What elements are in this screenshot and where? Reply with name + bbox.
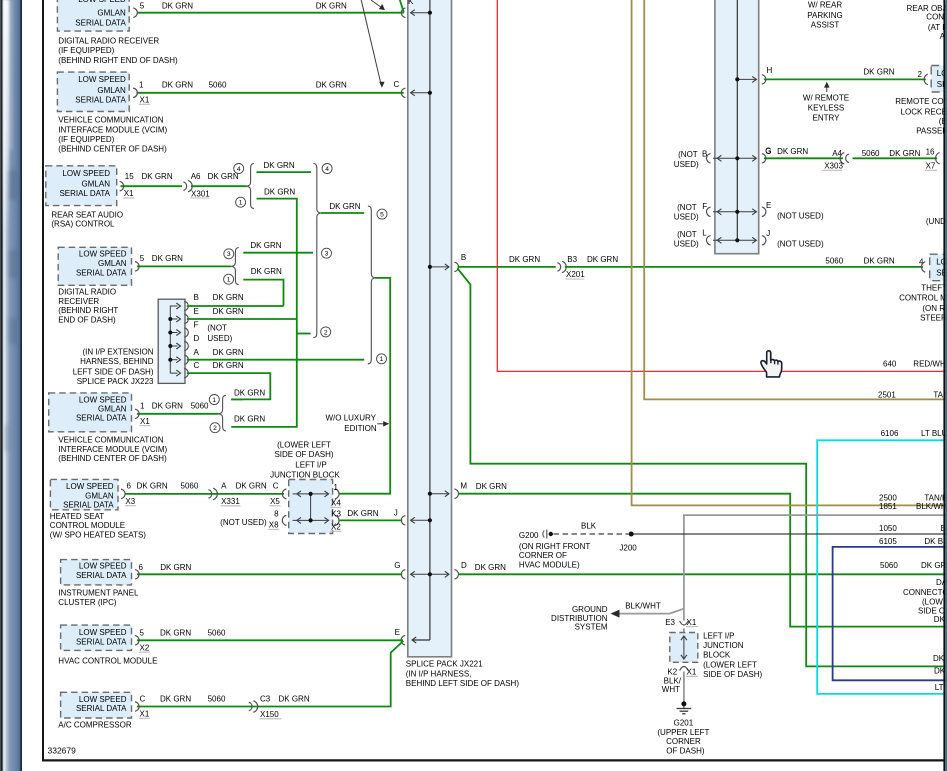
wire 1050 BLK with G200 and J200 [554,533,629,535]
svg-text:4: 4 [325,166,329,173]
svg-text:(LOWER LEFT: (LOWER LEFT [703,661,757,670]
svg-text:2: 2 [324,329,328,336]
splice pack JX221 bus bar [408,0,452,657]
svg-text:(NOT USED): (NOT USED) [777,212,824,221]
svg-text:DK GRN: DK GRN [208,172,239,181]
svg-text:X8: X8 [269,521,279,530]
page frame border [42,0,44,761]
connector arc B1 [133,8,137,18]
svg-text:M: M [460,481,467,490]
svg-text:(NOT: (NOT [677,203,697,212]
wire 2501 TAN [644,0,947,399]
svg-text:LOW SPEED: LOW SPEED [79,695,127,704]
svg-text:BLK/WHT: BLK/WHT [916,502,947,511]
svg-text:(ON RIGHT FRONT: (ON RIGHT FRONT [519,542,591,551]
circled 2 at brace1 [321,327,331,337]
svg-text:SYSTEM: SYSTEM [575,622,608,631]
svg-text:16: 16 [926,147,935,156]
svg-text:G200: G200 [519,531,539,540]
svg-text:(IN I/P HARNESS,: (IN I/P HARNESS, [406,669,472,678]
svg-text:(LOWER LEFT: (LOWER LEFT [277,441,331,450]
connector box B7 LOW SPEED SERIAL DATA (instrument panel cluster) [61,560,132,585]
svg-text:X5: X5 [270,497,280,506]
svg-text:DK GRN: DK GRN [921,561,947,570]
svg-text:DK GRN: DK GRN [279,695,310,704]
circled 1 at brace2 [377,354,387,364]
svg-text:X331: X331 [221,497,240,506]
svg-text:DK GRN: DK GRN [213,361,244,370]
svg-text:DK GRN: DK GRN [863,68,894,77]
svg-text:A4: A4 [832,149,842,158]
wire RSA branch 4 DK GRN [257,171,312,173]
svg-text:(BEHIND RIGHT END OF DASH): (BEHIND RIGHT END OF DASH) [58,56,178,65]
ground distribution branch with arrow [620,609,684,614]
svg-text:D: D [194,334,200,343]
wire DR2 branch 1 DK GRN down to JX223-B wire [243,280,283,306]
svg-text:DIGITAL RADIO: DIGITAL RADIO [58,287,116,296]
svg-text:SERIAL DATA: SERIAL DATA [76,414,127,423]
svg-text:B: B [194,293,199,302]
svg-text:CLUSTER (IPC): CLUSTER (IPC) [58,598,117,607]
svg-text:REAR SEAT AUDIO: REAR SEAT AUDIO [51,211,123,220]
svg-text:SIDE OF DASH): SIDE OF DASH) [274,450,333,459]
bus2 terminal B/G [713,157,756,159]
svg-text:SPLICE PACK JX221: SPLICE PACK JX221 [406,660,483,669]
svg-text:GMLAN: GMLAN [98,259,127,268]
svg-text:5: 5 [140,628,145,637]
wire RSA DK GRN from X301 to fanout brace [191,185,247,187]
svg-text:3: 3 [227,251,231,258]
svg-text:1: 1 [227,277,231,284]
JX221 terminal J [411,519,430,521]
wire RSA 15 DK GRN to X301 [121,185,183,187]
svg-text:SERIAL DATA: SERIAL DATA [63,500,114,509]
window chrome right strip [943,0,945,771]
svg-text:6105: 6105 [879,537,897,546]
wire brace1 to brace2 DK GRN [321,212,364,214]
connector K2/X1 [680,667,689,671]
svg-text:A6: A6 [191,172,201,181]
left I/P junction block 2 [683,629,685,633]
svg-text:LEFT SIDE OF DASH): LEFT SIDE OF DASH) [73,367,154,376]
svg-text:LT BLU: LT BLU [921,429,947,438]
svg-text:BLK: BLK [581,521,597,530]
svg-text:(ON RIGHT: (ON RIGHT [922,304,947,313]
window chrome left strip [0,0,22,771]
svg-text:6: 6 [127,482,132,491]
wire DR2 5 DK GRN to fanout [137,265,231,267]
inline connector X331 [209,490,212,499]
left I/P junction block [289,480,333,534]
circled 1 at RSA fanout [236,197,246,207]
svg-text:USED): USED) [674,213,699,222]
svg-text:5060: 5060 [209,81,227,90]
svg-text:(RSA) CONTROL: (RSA) CONTROL [51,220,115,229]
svg-text:X1: X1 [140,710,150,719]
svg-text:HEATED SEAT: HEATED SEAT [50,512,104,521]
svg-text:A: A [221,482,227,491]
svg-text:VEHICLE COMMUNICATION: VEHICLE COMMUNICATION [58,116,163,125]
wire bus2-G DK GRN to X303 5060 DK GRN 16 X7 [764,157,843,159]
svg-text:X2: X2 [140,643,150,652]
svg-text:E3: E3 [665,618,675,627]
svg-text:W/O LUXURY: W/O LUXURY [325,413,376,422]
wire stub node 2 to brace1 [297,333,311,335]
inline connector X301 [183,182,186,191]
bus2 terminal L/J [713,239,756,241]
inline connector X150 [249,702,252,711]
svg-text:JUNCTION: JUNCTION [703,641,744,650]
svg-text:K2: K2 [667,668,677,677]
svg-text:DK GRN: DK GRN [152,402,183,411]
svg-text:E: E [194,307,199,316]
svg-text:C: C [194,361,200,370]
svg-text:2501: 2501 [878,390,896,399]
svg-text:SERIAL DATA: SERIAL DATA [76,637,127,646]
connector arc B2 [133,88,137,98]
svg-text:DK GRN: DK GRN [347,509,378,518]
svg-text:STEERING: STEERING [920,314,947,323]
svg-text:1050: 1050 [879,524,897,533]
svg-text:SERIAL DATA: SERIAL DATA [59,189,110,198]
wire B7 IPC 6 DK GRN to JX221-G [137,573,402,575]
svg-text:SERIAL DATA: SERIAL DATA [76,571,127,580]
svg-text:E: E [395,628,400,637]
wire B9 A/C compressor C DK GRN 5060 via X150 up to JX221-E [137,641,404,707]
svg-text:(LOWER: (LOWER [922,598,947,607]
wire diagonal into JX221-K from top [400,0,404,12]
svg-text:5060: 5060 [191,402,209,411]
JX221 terminal K [411,12,430,14]
svg-text:X1: X1 [140,96,150,105]
svg-text:SIDE OF: SIDE OF [918,607,947,616]
svg-text:2: 2 [213,425,217,432]
svg-text:LOW SPEED: LOW SPEED [66,482,114,491]
svg-text:4: 4 [237,166,241,173]
svg-text:REMOTE CONTROL: REMOTE CONTROL [895,97,947,106]
wire JX223-B DK GRN [187,305,284,307]
svg-text:5: 5 [140,254,145,263]
svg-text:6: 6 [139,563,144,572]
leader arrow to wire K [371,0,383,9]
svg-text:(NOT: (NOT [677,230,697,239]
svg-text:K: K [408,0,414,6]
svg-text:5060: 5060 [862,149,880,158]
svg-text:DK GRN: DK GRN [264,187,295,196]
svg-text:BLK/WHT: BLK/WHT [625,602,661,611]
svg-text:(BEHIND RIGHT: (BEHIND RIGHT [58,306,118,315]
connector box B4 LOW SPEED GMLAN SERIAL DATA (digital radio receiver 2) [58,247,131,285]
svg-text:LEFT I/P: LEFT I/P [295,460,326,469]
svg-text:5060: 5060 [825,256,843,265]
wire JX221-D DK GRN 5060 to right edge [458,573,947,575]
svg-text:DK GRN: DK GRN [329,202,360,211]
svg-text:LOW SPEED: LOW SPEED [79,628,127,637]
svg-text:WHT: WHT [662,685,680,694]
circled 4 at RSA fanout [234,164,244,174]
svg-text:H: H [767,66,773,75]
svg-text:GMLAN: GMLAN [97,9,126,18]
wire JX221-B to X201 DK GRN [458,266,556,268]
svg-text:LOW SPEED: LOW SPEED [62,169,110,178]
svg-text:DK GRN: DK GRN [587,255,618,264]
svg-text:DK GRN: DK GRN [251,267,282,276]
svg-text:X301: X301 [191,189,210,198]
svg-text:HVAC CONTROL MODULE: HVAC CONTROL MODULE [58,656,157,665]
leader arrow to wire C [361,0,381,85]
wire JX223-E DK GRN to node V1 [187,318,297,320]
W REMOTE KEYLESS ENTRY label with up arrow [826,86,828,93]
JX221 terminal D [430,573,449,575]
svg-text:SIDE OF DASH): SIDE OF DASH) [703,670,762,679]
svg-text:DK GRN: DK GRN [152,254,183,263]
svg-text:DK GRN: DK GRN [509,255,540,264]
svg-text:(NOT USED): (NOT USED) [777,239,824,248]
connector box B6 LOW SPEED GMLAN SERIAL DATA (heated seat module) [50,479,118,509]
svg-text:DK GRN: DK GRN [234,414,265,423]
svg-text:D: D [461,561,467,570]
wire bus2-H DK GRN 2 to right edge connector [764,78,926,80]
svg-text:1: 1 [334,483,339,492]
svg-text:LOW SPEED: LOW SPEED [78,75,126,84]
fanout brace B5 [219,395,226,431]
svg-text:5060: 5060 [181,482,199,491]
svg-text:A/C COMPRESSOR: A/C COMPRESSOR [58,721,132,730]
circled 5 at brace2 [377,209,387,219]
svg-text:LOW SPEED: LOW SPEED [78,0,126,4]
svg-text:C: C [394,80,400,89]
svg-text:5: 5 [380,212,384,219]
svg-text:X150: X150 [260,710,279,719]
svg-text:X1: X1 [124,189,134,198]
bus2 terminal F/E [713,211,756,213]
svg-text:OF DASH): OF DASH) [666,746,705,755]
svg-text:X2: X2 [331,523,341,532]
wire DR2 branch 3 DK GRN [243,252,313,254]
svg-text:X1: X1 [687,668,697,677]
wire B8 HVAC 5 DK GRN 5060 to JX221-E [137,639,403,641]
svg-text:GMLAN: GMLAN [97,86,126,95]
svg-text:DK GRN: DK GRN [162,1,193,10]
svg-text:DK GRN: DK GRN [250,241,281,250]
wire JX223-C DK GRN down to B5 fanout branch 1 [187,373,270,399]
svg-text:B3: B3 [567,255,577,264]
svg-text:K3: K3 [331,510,341,519]
svg-text:LOW SPEED: LOW SPEED [79,562,127,571]
svg-text:LOW SPEED: LOW SPEED [79,395,127,404]
svg-text:DK GRN: DK GRN [264,161,295,170]
svg-text:SPLICE PACK JX223: SPLICE PACK JX223 [77,377,154,386]
wire 6106 LT BLU [817,440,947,694]
svg-text:(W/ SPO HEATED SEATS): (W/ SPO HEATED SEATS) [50,530,146,539]
svg-text:DK GRN: DK GRN [864,256,895,265]
svg-text:DK GRN: DK GRN [889,149,920,158]
svg-text:SERIAL DATA: SERIAL DATA [76,268,127,277]
connector box B8 LOW SPEED SERIAL DATA (HVAC control module) [61,625,132,650]
svg-text:B: B [702,149,707,158]
svg-text:RED/WHT: RED/WHT [913,359,947,368]
circled 2 at B5 fanout [210,423,220,433]
wire B5 1 DK GRN 5060 to fanout [137,413,219,415]
svg-text:DK GRN: DK GRN [162,81,193,90]
svg-text:DK GRN: DK GRN [160,628,191,637]
svg-text:INSTRUMENT PANEL: INSTRUMENT PANEL [58,589,139,598]
connector box B1 LOW SPEED GMLAN SERIAL DATA (digital radio receiver) [57,0,129,31]
svg-text:LOW SPEED: LOW SPEED [79,249,127,258]
svg-text:(NOT: (NOT [678,150,698,159]
right edge connector box (remote door lock receiver) [931,66,947,93]
svg-text:(BEHIND CENTER OF DASH): (BEHIND CENTER OF DASH) [58,454,167,463]
svg-text:DK GRN: DK GRN [160,563,191,572]
svg-text:DK GRN: DK GRN [213,348,244,357]
svg-text:X7: X7 [926,162,936,171]
svg-text:C: C [273,482,279,491]
svg-text:KEYLESS: KEYLESS [808,104,844,113]
svg-text:E: E [766,201,771,210]
svg-text:PARKING: PARKING [807,11,842,20]
svg-text:CORNER: CORNER [666,737,701,746]
svg-text:L: L [702,228,707,237]
inline connector X201 [557,263,560,272]
svg-text:5060: 5060 [208,695,226,704]
svg-text:GMLAN: GMLAN [82,180,111,189]
svg-text:DK GRN: DK GRN [475,563,506,572]
wire K DK GRN from B1 to JX221-K [138,12,404,14]
svg-text:1: 1 [239,200,243,207]
svg-text:EDITION: EDITION [344,424,377,433]
wire 1851 BLK/WHT to ground distribution [684,515,947,621]
svg-text:X4: X4 [331,499,341,508]
wire K2 BLK/WHT down to G201 [683,672,685,702]
fanout brace DR2 [232,248,239,285]
svg-text:CONNECTOR: CONNECTOR [903,588,947,597]
svg-text:(NOT: (NOT [207,323,227,332]
svg-text:6106: 6106 [881,429,899,438]
svg-text:(IF EQUIPPED): (IF EQUIPPED) [58,135,114,144]
svg-text:VEHICLE COMMUNICATION: VEHICLE COMMUNICATION [58,436,163,445]
svg-text:8: 8 [274,510,279,519]
svg-text:(IF EQUIPPED): (IF EQUIPPED) [58,46,114,55]
wire 640 RED/WHT [497,0,947,371]
right edge connector box (theft) [930,254,947,281]
svg-text:CONTROL MODULE: CONTROL MODULE [899,294,947,303]
connector E3/X1 [680,621,689,625]
splice pack JX223 box [158,299,185,383]
svg-text:DK GRN: DK GRN [234,388,265,397]
svg-text:ENTRY: ENTRY [813,114,841,123]
svg-text:C: C [140,695,146,704]
svg-text:3: 3 [325,251,329,258]
ground G201 symbol [681,701,686,706]
svg-text:CORNER OF: CORNER OF [519,551,567,560]
svg-text:X3: X3 [125,497,135,506]
JX221 terminal B [430,266,449,268]
svg-text:DK GRN: DK GRN [213,293,244,302]
wire brace2 output to junction block X4 [339,278,390,494]
svg-text:X1: X1 [687,618,697,627]
JX221 terminal M [430,493,449,495]
circled 3 at DR2 fanout [224,249,234,259]
svg-text:GROUND: GROUND [572,605,608,614]
svg-text:F: F [194,321,199,330]
bus2 terminal H [737,78,756,80]
svg-text:J200: J200 [619,544,637,553]
svg-text:INTERFACE MODULE (VCIM): INTERFACE MODULE (VCIM) [58,125,167,134]
svg-text:HARNESS, BEHIND: HARNESS, BEHIND [80,357,154,366]
svg-text:(BEHIND CENTER OF DASH): (BEHIND CENTER OF DASH) [58,144,167,153]
svg-text:GMLAN: GMLAN [85,491,114,500]
svg-text:DIGITAL RADIO RECEIVER: DIGITAL RADIO RECEIVER [58,36,159,45]
svg-text:BEHIND LEFT SIDE OF DASH): BEHIND LEFT SIDE OF DASH) [406,679,520,688]
JX221 terminal C [411,92,430,94]
wire RSA branch 1 DK GRN down to network node V1 [231,199,297,427]
circled 1 at DR2 fanout [224,274,234,284]
connector box B9 LOW SPEED SERIAL DATA (A/C compressor) [61,692,132,718]
svg-text:USED): USED) [674,240,699,249]
wire B6 6 DK GRN 5060 through X331 to junction block [125,493,285,495]
collector brace 1 [313,164,320,338]
svg-text:G: G [765,147,771,156]
svg-text:THEFT: THEFT [921,284,947,293]
wire X201 to right edge 5060 DK GRN 4 (theft module) [565,266,923,268]
svg-text:X1: X1 [140,417,150,426]
connector box B5 LOW SPEED GMLAN SERIAL DATA (VCIM 2) [49,393,132,432]
connector box B3 LOW SPEED GMLAN SERIAL DATA (rear seat audio) [46,166,117,206]
svg-text:DK GRN: DK GRN [476,482,507,491]
svg-text:DK GRN: DK GRN [137,482,168,491]
svg-text:(NOT USED): (NOT USED) [220,518,267,527]
svg-text:A: A [194,348,200,357]
wire junction block K3/X2 to JX221-J DK GRN [339,519,402,521]
svg-text:DK GRN: DK GRN [213,307,244,316]
svg-text:LOCK RECEIVER: LOCK RECEIVER [901,107,947,116]
svg-text:JUNCTION BLOCK: JUNCTION BLOCK [270,470,340,479]
svg-text:GMLAN: GMLAN [98,405,127,414]
connector box B2 LOW SPEED GMLAN SERIAL DATA (VCIM) [57,72,129,111]
junction J200 [629,532,634,537]
svg-text:USED): USED) [674,160,699,169]
wire JX221-M DK GRN to right edge [458,494,947,627]
svg-text:SERIAL DATA: SERIAL DATA [75,19,126,28]
svg-text:332679: 332679 [48,746,77,756]
collector brace 2 [368,206,375,364]
svg-text:INTERFACE MODULE (VCIM): INTERFACE MODULE (VCIM) [58,445,167,454]
svg-text:C3: C3 [260,695,271,704]
svg-text:1: 1 [139,81,144,90]
svg-text:RECEIVER: RECEIVER [58,297,99,306]
svg-text:DK GRN: DK GRN [142,172,173,181]
svg-text:W/ REMOTE: W/ REMOTE [803,94,849,103]
svg-text:1: 1 [140,402,145,411]
svg-text:BLK/: BLK/ [664,676,682,685]
wire 2500 TAN/BU [632,0,947,505]
svg-text:G: G [394,561,400,570]
svg-text:(IN I/P EXTENSION: (IN I/P EXTENSION [83,347,154,356]
svg-text:(UPPER LEFT: (UPPER LEFT [657,728,709,737]
svg-text:1: 1 [212,397,216,404]
svg-text:SERIAL DATA: SERIAL DATA [75,96,126,105]
JX221 terminal G [411,573,430,575]
svg-text:5: 5 [140,1,145,10]
wire C DK GRN 5060 from B2 to JX221-C [138,92,404,94]
svg-text:USED): USED) [207,334,232,343]
svg-text:1: 1 [380,356,384,363]
svg-text:PASSENGER: PASSENGER [916,127,947,136]
svg-text:J: J [766,229,770,238]
svg-text:W/ REAR: W/ REAR [808,1,842,10]
svg-text:DK GRN: DK GRN [316,81,347,90]
svg-text:DK GRN: DK GRN [160,695,191,704]
